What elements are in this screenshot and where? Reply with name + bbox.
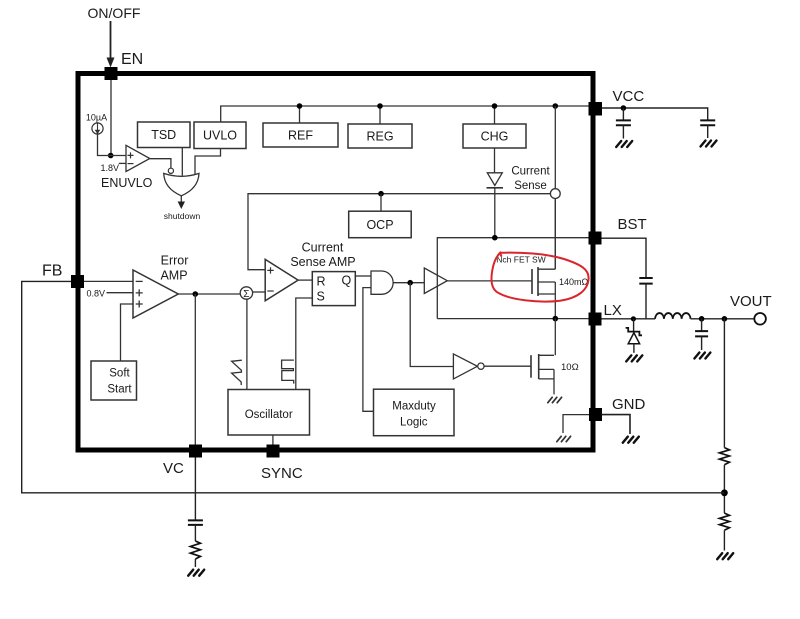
ground GND pin: [623, 437, 639, 443]
wire 1.8V input: [119, 162, 126, 164]
wire sense tap down: [554, 106, 556, 189]
pin LX: [589, 313, 602, 326]
node sense tap: [553, 103, 559, 109]
ground divider: [717, 553, 733, 559]
node FET source to LX: [553, 316, 559, 322]
box UVLO: [194, 122, 246, 149]
wire TSD to gate: [181, 148, 183, 176]
node EN junction: [108, 153, 114, 159]
IC outline: [78, 74, 593, 451]
wire current-sense to CS amp: [248, 194, 550, 270]
diode D2 schottky: [633, 319, 635, 332]
svg-text:ENUVLO: ENUVLO: [101, 176, 153, 190]
wire EN down to node: [110, 80, 112, 156]
AND gate: [371, 271, 393, 294]
pin BST: [589, 232, 602, 245]
wire VC external: [194, 458, 196, 520]
ground C2: [701, 141, 717, 147]
svg-text:0.8V: 0.8V: [86, 289, 105, 299]
node REG: [377, 103, 383, 109]
buffer driver: [424, 268, 447, 294]
wire sigma down to oscillator: [246, 299, 248, 389]
wire FB to error amp: [84, 280, 133, 282]
wire divider down: [723, 319, 725, 448]
wire 0.8V to error amp: [107, 292, 134, 294]
svg-text:GND: GND: [612, 396, 646, 413]
transistor Nch FET SW: [531, 269, 533, 294]
ground VC: [188, 570, 204, 576]
inductor L1: [655, 313, 690, 319]
svg-text:VOUT: VOUT: [730, 293, 772, 310]
node REF: [297, 103, 303, 109]
wire to cap C1: [622, 108, 624, 120]
node gate drive: [407, 280, 413, 286]
svg-text:VCC: VCC: [613, 88, 645, 105]
svg-text:Sense: Sense: [514, 180, 547, 192]
svg-text:UVLO: UVLO: [203, 129, 237, 143]
current source I1: [92, 123, 103, 134]
ground 10ohm FET: [548, 397, 562, 402]
wire LX rail inside: [554, 319, 556, 356]
svg-text:FB: FB: [42, 263, 62, 280]
ground D2: [626, 355, 642, 361]
wire error amp output: [178, 293, 240, 295]
wire CHG to bus: [494, 106, 496, 124]
wire ON/OFF to EN: [110, 21, 112, 59]
capacitor BST: [639, 278, 652, 284]
resistor R1: [719, 448, 729, 465]
wire S input: [296, 298, 313, 390]
svg-text:EN: EN: [121, 51, 143, 68]
VOUT terminal: [754, 313, 766, 325]
pin GND: [589, 408, 602, 421]
ground Cout: [694, 353, 710, 359]
node divider tap: [722, 316, 728, 322]
node cap tap: [699, 316, 705, 322]
wire Q to AND: [355, 275, 371, 277]
wire R1 to node: [723, 465, 725, 513]
wire LX external: [602, 318, 656, 320]
svg-text:AMP: AMP: [160, 269, 187, 283]
wire soft start to error amp: [121, 304, 134, 361]
svg-text:ON/OFF: ON/OFF: [88, 5, 141, 21]
svg-text:Current: Current: [302, 241, 344, 255]
box REG: [348, 124, 412, 148]
wire inverter to 10ohm FET: [484, 365, 531, 367]
pin EN: [105, 67, 118, 80]
wire node down to inverter: [410, 283, 453, 367]
wire current source to node: [98, 134, 127, 155]
svg-text:SYNC: SYNC: [261, 465, 303, 482]
wire CS amp to R input: [298, 279, 312, 281]
wire VC line down: [194, 294, 196, 445]
node CHG: [492, 103, 498, 109]
gate G1 bubble: [168, 168, 173, 173]
pin FB: [71, 275, 84, 288]
node OCP tap: [378, 191, 384, 197]
wire oscillator to SYNC: [272, 435, 274, 445]
svg-text:TSD: TSD: [151, 128, 176, 142]
svg-text:140mΩ: 140mΩ: [559, 277, 589, 287]
svg-text:Nch FET SW: Nch FET SW: [496, 255, 545, 265]
box Soft Start: [91, 361, 137, 400]
flip-flop RS: [312, 272, 355, 306]
wire REF to bus: [299, 106, 301, 123]
op-amp current sense amp: [265, 259, 298, 300]
red annotation ellipse: [491, 253, 588, 302]
node FB divider: [721, 489, 728, 496]
svg-text:shutdown: shutdown: [164, 211, 201, 221]
box TSD: [138, 122, 191, 148]
ground C1: [616, 141, 632, 147]
squarewave glyph: [282, 360, 294, 384]
transistor 10ohm FET: [530, 355, 532, 378]
svg-text:Error: Error: [161, 254, 189, 268]
inverter: [453, 354, 477, 379]
svg-text:10µA: 10µA: [86, 113, 107, 123]
wire UVLO to gate: [195, 149, 221, 175]
box OCP: [349, 211, 412, 238]
wire REG to bus: [379, 106, 381, 124]
capacitor C1: [616, 120, 631, 125]
summing node sigma: [240, 287, 252, 299]
wire FB loop: [22, 281, 725, 492]
resistor R2: [719, 513, 729, 530]
svg-text:R: R: [317, 275, 326, 289]
svg-text:CHG: CHG: [481, 130, 509, 144]
wire GND external: [602, 415, 631, 434]
node VCC cap1: [621, 105, 627, 111]
pin SYNC: [267, 445, 280, 458]
wire VCC external: [602, 108, 708, 120]
capacitor Cout: [701, 319, 703, 331]
box CHG: [463, 124, 526, 148]
sawtooth glyph: [232, 360, 242, 385]
wire AND output: [393, 282, 424, 284]
driver rect BST-LX: [437, 238, 588, 319]
wire buffer to FET gate: [447, 280, 532, 282]
diode D1 under CHG: [494, 148, 496, 173]
svg-text:VC: VC: [163, 460, 184, 477]
capacitor C2: [700, 120, 715, 125]
box REF: [263, 123, 338, 147]
wire sigma to CS amp minus: [253, 291, 266, 293]
svg-text:1.8V: 1.8V: [100, 163, 119, 173]
sense probe circle: [550, 189, 560, 199]
svg-text:Soft: Soft: [109, 368, 130, 380]
svg-text:LX: LX: [604, 302, 622, 319]
svg-text:10Ω: 10Ω: [561, 362, 579, 373]
pin VCC: [589, 102, 603, 116]
svg-text:Maxduty: Maxduty: [392, 401, 436, 413]
gate G1 (OR shape pointing down): [164, 173, 199, 195]
node VC tap: [193, 291, 199, 297]
wire OCP to sense line: [380, 194, 382, 212]
op-amp error amplifier: [133, 270, 178, 318]
wire GND internal: [563, 415, 589, 433]
ground internal: [557, 436, 571, 441]
arrowhead into EN: [107, 58, 115, 68]
svg-text:Q: Q: [342, 274, 352, 288]
capacitor VC: [188, 520, 203, 525]
op-amp ENUVLO comparator: [126, 145, 150, 171]
resistor VC: [190, 541, 200, 559]
wire comparator output to gate: [150, 159, 171, 169]
svg-text:S: S: [317, 290, 325, 304]
box Maxduty Logic: [374, 389, 455, 436]
svg-text:Σ: Σ: [243, 289, 249, 300]
svg-text:Start: Start: [107, 384, 132, 396]
wire maxduty to AND: [363, 288, 374, 412]
svg-text:REG: REG: [366, 130, 393, 144]
wire BST external: [602, 238, 647, 277]
svg-text:REF: REF: [288, 129, 313, 143]
shutdown arrow: [180, 196, 182, 202]
svg-text:Sense AMP: Sense AMP: [290, 255, 355, 269]
svg-text:Oscillator: Oscillator: [245, 409, 293, 421]
box Oscillator: [228, 390, 310, 436]
pin VC: [189, 445, 202, 458]
svg-text:OCP: OCP: [366, 218, 393, 232]
wire VCC bus: [221, 106, 589, 122]
node CHG diode to BST rail: [492, 235, 498, 241]
svg-text:BST: BST: [618, 216, 647, 233]
node diode tap: [631, 316, 636, 321]
svg-text:Logic: Logic: [400, 417, 428, 429]
svg-text:Current: Current: [511, 166, 550, 178]
